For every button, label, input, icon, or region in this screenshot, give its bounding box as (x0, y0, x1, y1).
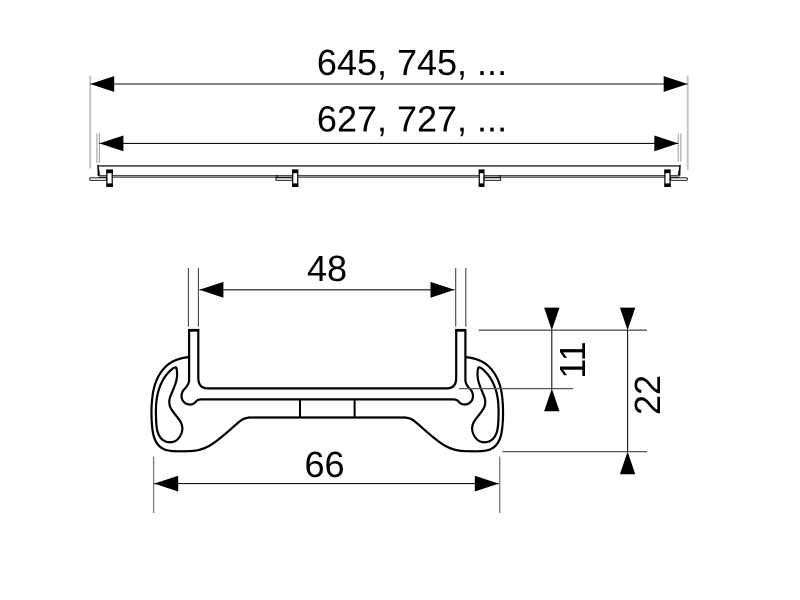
svg-text:48: 48 (307, 248, 347, 289)
divider tick left (299, 399, 301, 418)
extension lines above left wall (48) (187, 268, 189, 327)
clip 4 (right) (664, 170, 670, 187)
extension line left (66) (153, 457, 155, 513)
grate right end wedge (678, 165, 681, 176)
svg-text:66: 66 (304, 444, 344, 485)
right wall top cap (455, 329, 466, 332)
arrow 11 top (544, 308, 559, 331)
grate bottom double line upper (99, 175, 680, 176)
dimension line 48 (199, 289, 454, 291)
svg-text:11: 11 (552, 341, 593, 378)
pin left end (90, 178, 107, 181)
grate bottom double line lower (99, 177, 680, 178)
dimension line 11 (551, 330, 553, 388)
grate top line (97, 165, 680, 167)
left wall top cap (188, 329, 199, 332)
dimension line 66 (154, 483, 499, 485)
reference line profile bottom (for 22) (503, 451, 648, 453)
right wing outline (406, 357, 504, 451)
channel outer surface with hooks (182, 330, 473, 405)
pin of clip 2 (extends left) (276, 178, 292, 181)
dimension line 645 (90, 83, 688, 85)
extension line right (66) (499, 457, 501, 513)
arrow 22 bottom (620, 452, 635, 475)
divider tick right (354, 399, 356, 418)
svg-text:627, 727, ...: 627, 727, ... (317, 99, 507, 140)
arrow 48 right (431, 282, 455, 298)
arrow 22 top (620, 308, 635, 331)
dimension line 22 (627, 330, 629, 451)
arrow 627 left (99, 136, 123, 152)
reference line channel bottom (for 11) (459, 388, 573, 390)
clip 1 (left) (106, 170, 113, 187)
grate bottom double line gap (99, 175, 680, 178)
bottom flat line (248, 416, 406, 418)
dimension line 627 (99, 142, 678, 144)
extension line left (645) (89, 76, 91, 169)
pin of clip 3 (extends right) (484, 178, 500, 181)
extension line right (645) (687, 76, 689, 171)
reference line wall top (for 11 and 22) (479, 329, 647, 331)
pin right end (671, 178, 688, 181)
arrow 645 left (90, 76, 114, 92)
arrow 66 right (475, 476, 499, 492)
tick at pin 3 right end (499, 175, 501, 177)
channel inner surface (U) (198, 330, 456, 388)
right wing kidney hole (472, 367, 499, 442)
extension lines right (627) (677, 133, 679, 161)
clip 3 (mid-right) (479, 170, 485, 187)
svg-text:645, 745, ...: 645, 745, ... (317, 42, 507, 83)
left wing outline (151, 357, 249, 451)
grate left end wedge (97, 165, 100, 176)
extension lines above right wall (48) (455, 268, 457, 327)
extension lines left (627) (96, 133, 98, 163)
left wing kidney hole (156, 367, 183, 442)
arrow 48 left (199, 282, 223, 298)
svg-text:22: 22 (627, 375, 668, 415)
clip 2 (mid-left) (292, 170, 298, 187)
arrow 627 right (654, 136, 678, 152)
tick at pin 2 left end (276, 175, 278, 177)
arrow 66 left (154, 476, 178, 492)
arrow 645 right (664, 76, 688, 92)
arrow 11 bottom (544, 389, 559, 412)
